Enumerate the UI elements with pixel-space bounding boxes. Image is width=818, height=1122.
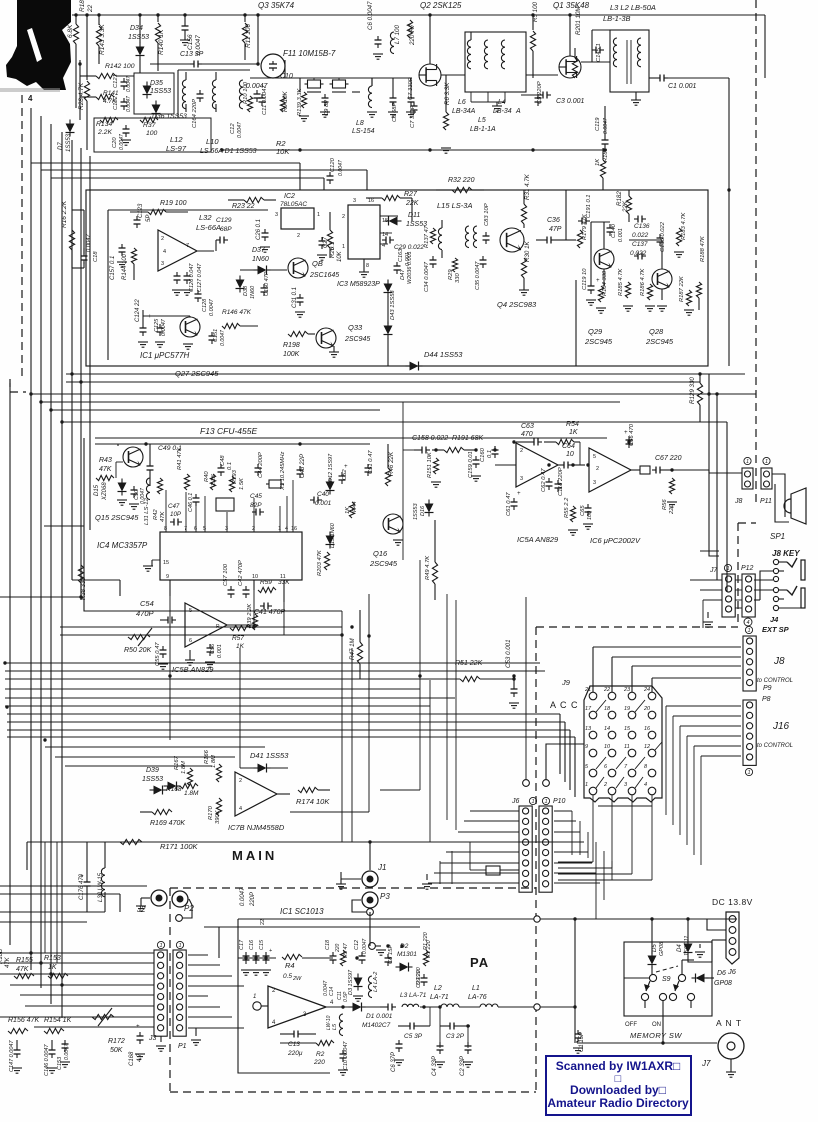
capacitor C8 68P bbox=[392, 94, 394, 98]
wire bus y737 bbox=[7, 736, 575, 738]
resistor R31 4.7K bbox=[521, 204, 526, 224]
svg-text:2.2K: 2.2K bbox=[97, 129, 112, 136]
wire audio out to J8 bbox=[672, 469, 709, 471]
svg-text:R129 330: R129 330 bbox=[689, 377, 696, 404]
inductor L5 winding bbox=[484, 40, 488, 69]
svg-text:C137: C137 bbox=[632, 241, 648, 248]
svg-text:3: 3 bbox=[161, 261, 164, 267]
capacitor C66 470 bbox=[628, 436, 630, 440]
svg-text:D5: D5 bbox=[652, 944, 658, 952]
resistor R180 1K bbox=[600, 160, 605, 178]
wire filter row bbox=[250, 77, 310, 79]
wire bus y698 bbox=[5, 697, 455, 699]
svg-text:C7 330P: C7 330P bbox=[410, 105, 416, 128]
svg-text:R172: R172 bbox=[108, 1038, 125, 1045]
inductor L6 winding bbox=[467, 40, 471, 69]
svg-text:D43 1SS53: D43 1SS53 bbox=[390, 290, 396, 320]
svg-text:M1402C7: M1402C7 bbox=[362, 1022, 391, 1029]
capacitor C17 bbox=[245, 952, 247, 956]
pin 14 J9 bbox=[608, 731, 616, 739]
svg-text:R179 47K: R179 47K bbox=[582, 213, 588, 240]
open junction PA1 bbox=[534, 916, 540, 922]
svg-text:C128: C128 bbox=[202, 298, 208, 312]
wire bus y382 bbox=[66, 381, 700, 383]
resistor R3 47K bbox=[340, 950, 345, 966]
transistor Q28 2SC945 bbox=[652, 269, 672, 289]
wire bus y410 bbox=[51, 409, 380, 411]
svg-text:22: 22 bbox=[260, 919, 266, 925]
svg-text:68P: 68P bbox=[220, 226, 232, 233]
resistor R182 22K bbox=[626, 196, 631, 214]
svg-text:2W: 2W bbox=[292, 976, 302, 982]
svg-text:C64: C64 bbox=[562, 443, 575, 450]
wire F13 underline bbox=[95, 437, 607, 439]
wire bus y394 bbox=[31, 393, 756, 395]
resistor R30 1K bbox=[521, 258, 526, 278]
svg-text:IC6 μPC2002V: IC6 μPC2002V bbox=[590, 536, 641, 545]
wire bus y747 bbox=[45, 746, 265, 748]
wire vertical mid x420 bbox=[419, 560, 421, 790]
transistor Q1 35K48 fet bbox=[559, 56, 581, 78]
capacitor C48 0.1 bbox=[220, 464, 222, 468]
wire into C158 bbox=[402, 402, 404, 450]
svg-text:R31 4.7K: R31 4.7K bbox=[524, 173, 531, 200]
diode D35 1SS53 bbox=[143, 86, 152, 95]
svg-text:6: 6 bbox=[194, 526, 197, 532]
svg-text:0.0047: 0.0047 bbox=[240, 887, 246, 906]
svg-text:2SC945: 2SC945 bbox=[344, 336, 370, 343]
resistor 6.8K bbox=[75, 15, 77, 24]
svg-text:D39: D39 bbox=[146, 767, 159, 774]
capacitor C136 0.022 bbox=[634, 218, 638, 220]
svg-text:2: 2 bbox=[252, 526, 255, 532]
wire pa caps bbox=[439, 1007, 441, 1048]
svg-text:470P: 470P bbox=[136, 609, 154, 618]
svg-text:LW-10: LW-10 bbox=[326, 1015, 332, 1030]
svg-text:1: 1 bbox=[531, 799, 534, 805]
svg-text:A: A bbox=[515, 108, 521, 115]
wire Q1 top bbox=[569, 15, 571, 56]
svg-text:Q1 35K48: Q1 35K48 bbox=[553, 1, 590, 10]
svg-text:C127 0.047: C127 0.047 bbox=[197, 263, 203, 292]
svg-text:L2: L2 bbox=[434, 985, 442, 992]
box IC1 subsection bbox=[107, 210, 109, 360]
svg-text:8: 8 bbox=[366, 263, 369, 269]
capacitor C65 100 bbox=[587, 504, 589, 508]
wire vertical mid x430 bbox=[429, 680, 431, 842]
capacitor C7 330P left bbox=[413, 102, 415, 106]
transistor Q2 2SK125 fet bbox=[419, 64, 441, 86]
svg-text:220: 220 bbox=[335, 943, 341, 953]
capacitor C126 0.047 bbox=[176, 272, 178, 276]
svg-text:1K: 1K bbox=[569, 429, 578, 436]
svg-text:C3 2P: C3 2P bbox=[446, 1033, 465, 1040]
svg-text:C147 0.0047: C147 0.0047 bbox=[9, 1040, 15, 1072]
svg-text:J6: J6 bbox=[511, 798, 520, 805]
svg-text:C65: C65 bbox=[580, 505, 586, 516]
svg-text:C6 37P: C6 37P bbox=[391, 1052, 397, 1072]
svg-text:330: 330 bbox=[455, 273, 461, 283]
svg-text:Q33: Q33 bbox=[348, 323, 363, 332]
svg-text:R171 100K: R171 100K bbox=[160, 842, 199, 851]
svg-text:220: 220 bbox=[669, 504, 675, 515]
svg-text:0.001: 0.001 bbox=[217, 644, 223, 658]
capacitor C124 22 bbox=[142, 324, 144, 328]
connector J6 DC bbox=[726, 912, 739, 964]
svg-text:1SS53: 1SS53 bbox=[142, 776, 163, 783]
terminal circle bbox=[543, 780, 550, 787]
svg-text:R43: R43 bbox=[99, 457, 112, 464]
svg-text:F13 CFU-455E: F13 CFU-455E bbox=[200, 426, 257, 436]
ground DC bbox=[695, 951, 705, 953]
resistor R183 4.7K bbox=[676, 228, 681, 246]
svg-text:5P: 5P bbox=[146, 215, 152, 222]
wire bus y671 bbox=[5, 670, 545, 672]
svg-text:SP1: SP1 bbox=[770, 532, 785, 541]
svg-text:L1: L1 bbox=[472, 985, 480, 992]
svg-text:R16 2.2K: R16 2.2K bbox=[61, 200, 68, 228]
coax P2 bbox=[172, 891, 188, 907]
wire Q2 gate bbox=[429, 15, 431, 64]
svg-text:C145 1: C145 1 bbox=[596, 43, 602, 62]
svg-text:R51 22K: R51 22K bbox=[455, 660, 483, 667]
svg-text:0.0047: 0.0047 bbox=[237, 121, 243, 138]
svg-text:5: 5 bbox=[189, 608, 192, 614]
capacitor C18b 220p bbox=[332, 952, 334, 956]
inductor L3 winding bbox=[613, 38, 617, 67]
resistor R42 47K bbox=[157, 478, 162, 494]
svg-text:Q16: Q16 bbox=[373, 549, 388, 558]
svg-text:L31 LS-12: L31 LS-12 bbox=[144, 497, 150, 525]
svg-text:R144 100: R144 100 bbox=[122, 253, 128, 280]
wire bus y663 bbox=[5, 662, 540, 664]
svg-text:R57: R57 bbox=[232, 635, 244, 642]
wire bus y170 bbox=[41, 169, 367, 171]
vertical bus x727 bbox=[726, 422, 728, 592]
resistor R16 2.2K bbox=[69, 230, 74, 250]
svg-text:PA: PA bbox=[470, 955, 489, 970]
svg-text:C157 0.1: C157 0.1 bbox=[110, 256, 116, 280]
wire P2 stub bbox=[182, 899, 192, 918]
svg-text:R151 10K: R151 10K bbox=[427, 451, 433, 478]
svg-text:78L05AC: 78L05AC bbox=[280, 201, 307, 208]
svg-text:0.0047: 0.0047 bbox=[220, 329, 226, 346]
resistor R49 4.7K bbox=[432, 562, 437, 584]
pin 7 J9 bbox=[628, 769, 636, 777]
svg-text:1: 1 bbox=[746, 459, 749, 465]
svg-text:C62 0.47: C62 0.47 bbox=[541, 468, 547, 492]
wire filter to mixer bbox=[352, 91, 360, 93]
diode D11 1SS53 bbox=[389, 217, 398, 226]
svg-text:F11 10M15B-7: F11 10M15B-7 bbox=[283, 49, 336, 58]
wire bottom-left links bbox=[0, 952, 154, 954]
svg-text:4: 4 bbox=[644, 782, 647, 788]
svg-text:19: 19 bbox=[624, 706, 630, 712]
svg-text:R153: R153 bbox=[44, 955, 61, 962]
wire bus y580 bbox=[72, 579, 120, 581]
svg-text:LA-76: LA-76 bbox=[468, 994, 487, 1001]
svg-text:+: + bbox=[596, 278, 600, 284]
svg-text:Q2 2SK125: Q2 2SK125 bbox=[420, 1, 462, 10]
svg-text:+: + bbox=[148, 314, 152, 320]
svg-text:R59: R59 bbox=[260, 579, 272, 586]
core T2 bbox=[626, 40, 628, 84]
diode D13 1N60 bbox=[326, 536, 335, 545]
svg-text:C83 10P: C83 10P bbox=[484, 203, 490, 226]
svg-text:C67 220: C67 220 bbox=[655, 455, 682, 462]
switch S9 pole 2 bbox=[678, 974, 685, 981]
svg-text:220P: 220P bbox=[250, 892, 256, 907]
speaker SP1 bbox=[791, 488, 806, 524]
capacitor C125 0.0047 bbox=[159, 324, 161, 328]
svg-text:4: 4 bbox=[163, 249, 166, 255]
svg-text:LS 66A D1 1SS53: LS 66A D1 1SS53 bbox=[200, 148, 257, 155]
wire bus y374 bbox=[66, 373, 745, 375]
pin 6 J9 bbox=[608, 769, 616, 777]
transistor Q16 2SC945 bbox=[383, 514, 403, 534]
svg-text:C151: C151 bbox=[213, 329, 219, 342]
resistor R7 220 bbox=[407, 20, 412, 38]
svg-text:C18: C18 bbox=[93, 251, 99, 262]
svg-text:R201 10M: R201 10M bbox=[575, 6, 582, 35]
svg-text:R56: R56 bbox=[662, 499, 668, 510]
diode D1 bbox=[353, 1003, 362, 1012]
wire J6 feeds bbox=[470, 810, 519, 812]
pin 19 J9 bbox=[628, 711, 636, 719]
svg-text:C9 220: C9 220 bbox=[416, 966, 422, 985]
wire vertical bus x62 bbox=[61, 132, 63, 1018]
svg-text:C14: C14 bbox=[329, 987, 335, 996]
svg-text:IC4 MC3357P: IC4 MC3357P bbox=[97, 541, 148, 550]
svg-text:18: 18 bbox=[604, 706, 611, 712]
svg-text:0.0047: 0.0047 bbox=[362, 938, 368, 954]
svg-text:13: 13 bbox=[585, 726, 592, 732]
svg-text:C56: C56 bbox=[210, 643, 216, 654]
svg-text:0.0047: 0.0047 bbox=[119, 133, 125, 150]
pin 2 J9 bbox=[608, 787, 616, 795]
svg-text:0.0047: 0.0047 bbox=[126, 75, 132, 92]
svg-text:P3: P3 bbox=[380, 892, 390, 901]
capacitor C29 0.022 bbox=[382, 239, 386, 241]
svg-text:LB-34A: LB-34A bbox=[452, 108, 476, 115]
wire Q4 out bbox=[566, 239, 576, 241]
svg-text:0.0047: 0.0047 bbox=[64, 1043, 70, 1060]
svg-text:C153: C153 bbox=[57, 1056, 63, 1070]
resistor R139 3.3K bbox=[301, 92, 306, 108]
capacitor C51 0.47 bbox=[367, 464, 369, 468]
wire main board bottom bbox=[27, 841, 560, 843]
box inner partition bbox=[575, 280, 577, 366]
wire Q1 to T2 bbox=[581, 61, 610, 63]
wire P10 right links bbox=[595, 842, 597, 919]
capacitor C27 0.1 bbox=[321, 237, 323, 241]
svg-text:C9 8P: C9 8P bbox=[324, 100, 330, 116]
svg-text:1: 1 bbox=[159, 943, 162, 949]
op-amp IC6 uPC2002V bbox=[589, 448, 631, 492]
capacitor C5 220P bbox=[537, 94, 539, 98]
wire vertical mid x352 bbox=[351, 648, 353, 842]
potentiometer R50 20K bbox=[128, 634, 150, 639]
circled 4 bbox=[744, 618, 752, 626]
wire pin1 bbox=[261, 1005, 268, 1007]
svg-text:R187 22K: R187 22K bbox=[679, 275, 685, 302]
svg-text:L8: L8 bbox=[356, 120, 364, 127]
diode D3 1SS97 bbox=[354, 978, 363, 987]
dashed jog right bbox=[738, 522, 756, 524]
box L12 LS-97 lower bbox=[94, 118, 211, 152]
resistor R41 47K bbox=[184, 474, 189, 490]
transformer T2 box bbox=[610, 30, 649, 92]
svg-text:C61 0.47: C61 0.47 bbox=[506, 492, 512, 516]
wire top supply bus bbox=[72, 14, 765, 16]
coax J2 bbox=[151, 890, 167, 906]
svg-text:0.5P: 0.5P bbox=[343, 991, 349, 1002]
svg-text:MAIN: MAIN bbox=[232, 848, 277, 863]
wire vertical bus x51 bbox=[50, 124, 52, 1004]
svg-text:C1 15P: C1 15P bbox=[579, 1032, 585, 1052]
inductor L4 LA-2 bbox=[368, 976, 372, 998]
capacitor C137 0.022 bbox=[634, 255, 638, 257]
inductor L8 LS-154 bbox=[368, 86, 372, 108]
box L12 trap section bbox=[134, 73, 174, 114]
svg-text:L15 LS-3A: L15 LS-3A bbox=[437, 201, 472, 210]
wire vertical mid x342 bbox=[341, 611, 343, 842]
svg-text:D35: D35 bbox=[150, 80, 163, 87]
svg-text:C47: C47 bbox=[168, 503, 180, 510]
svg-text:C136: C136 bbox=[634, 223, 650, 230]
capacitor C168 4.7 bbox=[139, 1032, 141, 1036]
capacitor C6 37P bbox=[398, 1040, 400, 1044]
svg-text:C125: C125 bbox=[154, 318, 160, 332]
svg-text:10K: 10K bbox=[276, 147, 290, 156]
svg-text:R143 3.3K: R143 3.3K bbox=[99, 24, 106, 55]
tuned circuit L10 coil 1 bbox=[182, 80, 186, 109]
svg-text:P12: P12 bbox=[741, 565, 754, 572]
svg-text:9: 9 bbox=[166, 574, 169, 580]
dashed PA top bbox=[170, 887, 536, 889]
resistor R184 330 bbox=[598, 286, 603, 302]
pin 22 J9 bbox=[608, 692, 616, 700]
svg-text:C44 200P: C44 200P bbox=[258, 452, 264, 478]
svg-text:IC2: IC2 bbox=[284, 193, 295, 200]
op-amp IC5A AN829 bbox=[516, 443, 558, 487]
wire IC1 cluster bbox=[143, 315, 190, 317]
svg-text:C31 0.1: C31 0.1 bbox=[292, 287, 298, 308]
resistor R193 1.5K bbox=[229, 476, 234, 492]
svg-text:R32 220: R32 220 bbox=[448, 177, 475, 184]
transistor Q15 2SC945 bbox=[123, 447, 143, 467]
wire IC4 pin11 down bbox=[283, 580, 285, 602]
coax P3 bbox=[362, 892, 378, 908]
wire trap out bbox=[79, 60, 81, 120]
wire vertical bus x81 bbox=[80, 148, 82, 600]
pin 21 J9 bbox=[589, 692, 597, 700]
resistor R9 10K bbox=[280, 96, 285, 112]
svg-text:0.1: 0.1 bbox=[227, 462, 233, 470]
svg-text:0.0047: 0.0047 bbox=[209, 298, 215, 316]
svg-text:2SC945: 2SC945 bbox=[369, 559, 398, 568]
svg-text:J8 KEY: J8 KEY bbox=[772, 549, 800, 558]
resistor R169 470K bbox=[152, 809, 172, 814]
svg-text:2: 2 bbox=[161, 236, 164, 242]
pin 1 circle bbox=[253, 1002, 261, 1010]
pin 10 J9 bbox=[608, 749, 616, 757]
wire IC3 right stubs bbox=[380, 215, 398, 217]
svg-text:to CONTROL: to CONTROL bbox=[757, 678, 793, 684]
wire vertical IC4 pin9 down bbox=[169, 580, 171, 740]
wire bus y635 bbox=[60, 634, 342, 636]
svg-text:C163: C163 bbox=[398, 248, 404, 262]
diode D36 1SS53 bbox=[152, 105, 161, 114]
resistor R179 47K bbox=[577, 230, 582, 248]
svg-text:R23 22: R23 22 bbox=[232, 203, 255, 210]
svg-text:22K: 22K bbox=[622, 200, 629, 213]
svg-text:D1 0.001: D1 0.001 bbox=[366, 1013, 393, 1020]
svg-text:2SC945: 2SC945 bbox=[584, 337, 613, 346]
svg-text:0.0047: 0.0047 bbox=[126, 95, 132, 112]
svg-text:16: 16 bbox=[368, 198, 374, 204]
coax J1 bbox=[362, 871, 378, 887]
svg-text:GP08: GP08 bbox=[659, 941, 665, 956]
wire vertical IC7B feed bbox=[239, 648, 241, 768]
svg-text:1SS53: 1SS53 bbox=[413, 503, 419, 520]
svg-text:S9: S9 bbox=[662, 976, 671, 983]
svg-text:C5 220P: C5 220P bbox=[537, 81, 543, 104]
wire P10 risers bbox=[571, 811, 573, 855]
svg-text:C119 10: C119 10 bbox=[582, 268, 588, 290]
wire PA inner bbox=[238, 957, 276, 959]
svg-text:L4 LA-2: L4 LA-2 bbox=[373, 971, 379, 992]
box IF section outline bbox=[86, 190, 708, 366]
wire vertical IC4 pin11 down2 bbox=[283, 580, 285, 635]
svg-text:0.001: 0.001 bbox=[618, 228, 624, 242]
capacitor C43 22P bbox=[299, 466, 301, 470]
svg-text:1K: 1K bbox=[595, 158, 601, 166]
wire PA feedback bbox=[238, 919, 330, 1073]
svg-text:Amateur Radio Directory: Amateur Radio Directory bbox=[547, 1096, 689, 1110]
transistor Q inside IC1 bbox=[180, 317, 200, 337]
wire IC4 pin2 down bbox=[253, 580, 255, 590]
svg-text:4.7: 4.7 bbox=[137, 1053, 143, 1062]
svg-text:100: 100 bbox=[146, 130, 158, 137]
svg-text:R5 100: R5 100 bbox=[532, 1, 539, 22]
capacitor C57 100 bbox=[230, 586, 232, 590]
svg-text:C51 0.47: C51 0.47 bbox=[368, 450, 374, 474]
pin 20 J9 bbox=[648, 711, 656, 719]
wire Q29 Q28 links bbox=[590, 222, 592, 282]
svg-text:21: 21 bbox=[584, 687, 591, 693]
svg-text:100: 100 bbox=[587, 510, 593, 520]
wire right top drop bbox=[764, 15, 766, 78]
svg-text:DC 13.8V: DC 13.8V bbox=[712, 897, 753, 907]
dashed PA bottom bbox=[170, 1091, 536, 1093]
svg-text:C26 0.1: C26 0.1 bbox=[256, 219, 262, 240]
capacitor C127 0.047 bbox=[186, 272, 188, 276]
svg-text:R2: R2 bbox=[316, 1051, 325, 1058]
resistor R38 330 bbox=[78, 565, 83, 583]
svg-text:2: 2 bbox=[297, 233, 300, 239]
capacitor C10 0.0047 bbox=[342, 1050, 344, 1054]
svg-text:C6 0.0047: C6 0.0047 bbox=[367, 1, 374, 30]
wire row y150 bbox=[222, 149, 604, 151]
inductor L2 winding bbox=[637, 38, 641, 67]
svg-text:D44 1SS53: D44 1SS53 bbox=[424, 350, 463, 359]
wire C1 to right bus bbox=[668, 77, 729, 79]
svg-text:LB-1-1A: LB-1-1A bbox=[470, 126, 496, 133]
svg-text:R154 1K: R154 1K bbox=[44, 1017, 72, 1024]
svg-text:5: 5 bbox=[203, 526, 206, 532]
svg-text:P1: P1 bbox=[178, 1043, 187, 1050]
